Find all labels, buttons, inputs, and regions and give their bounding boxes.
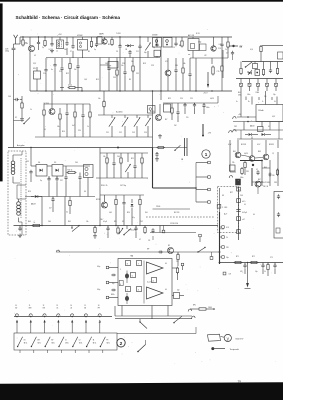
svg-text:R18: R18 — [143, 63, 146, 65]
svg-text:2a: 2a — [236, 101, 238, 103]
pad P3 — [208, 188, 211, 191]
wire driver v3 — [269, 160, 271, 186]
svg-text:0,65V: 0,65V — [244, 153, 248, 155]
resistor R19o — [212, 66, 214, 68]
resistor R9 — [21, 100, 23, 104]
dark box driver — [236, 179, 241, 185]
svg-text:R21: R21 — [131, 158, 134, 160]
ferrite coil core — [20, 158, 22, 218]
wire board bold vertical — [219, 212, 221, 264]
svg-text:C35: C35 — [26, 161, 29, 163]
svg-text:C54: C54 — [144, 132, 147, 134]
svg-text:150mA: 150mA — [258, 109, 264, 112]
chassis symbol — [247, 263, 249, 284]
svg-text:0,7V: 0,7V — [165, 61, 168, 63]
resistor R11 — [59, 113, 61, 115]
wire volume bus — [14, 225, 219, 227]
wire supply bus right — [236, 78, 283, 80]
ground left — [21, 117, 23, 119]
coil box T2 — [98, 37, 103, 45]
capacitor C5 — [96, 42, 98, 44]
connector pad row — [240, 83, 243, 86]
svg-text:C21: C21 — [43, 73, 46, 75]
svg-text:R8: R8 — [179, 45, 181, 47]
svg-text:40: 40 — [165, 289, 167, 291]
pin box 5 — [131, 273, 136, 278]
box right edge a — [278, 52, 284, 59]
svg-text:R15: R15 — [96, 79, 99, 81]
svg-text:D8: D8 — [222, 195, 224, 197]
svg-text:3p: 3p — [40, 180, 42, 182]
wire osc drop 1 — [195, 58, 197, 91]
coil L50 — [255, 70, 260, 76]
hook preamp left — [56, 250, 59, 252]
pad module a — [237, 187, 241, 191]
svg-text:C30: C30 — [175, 65, 178, 67]
wire IF to AF vertical — [152, 91, 154, 148]
svg-text:1k: 1k — [264, 271, 266, 273]
svg-text:0.47 R68: 0.47 R68 — [263, 182, 270, 184]
wire drop varicap right — [64, 197, 66, 226]
capacitor C37 — [56, 177, 58, 179]
svg-text:C/8: C/8 — [229, 274, 232, 276]
switch contact hook 13 — [57, 314, 60, 316]
wire demod drop — [99, 58, 101, 92]
svg-text:4.7k: 4.7k — [226, 227, 229, 229]
svg-text:7: 7 — [138, 263, 139, 265]
switch S6 contact — [72, 346, 73, 347]
capacitor C6 — [119, 37, 121, 45]
svg-text:4/706M: 4/706M — [77, 35, 83, 37]
wire drop x120 — [119, 58, 121, 92]
svg-text:C20: C20 — [78, 130, 81, 132]
svg-text:C60: C60 — [48, 221, 51, 223]
wire right top rail — [262, 44, 283, 46]
wire IF row rail — [163, 102, 218, 104]
wire power rail b — [233, 121, 283, 123]
switch S9 — [174, 316, 182, 322]
svg-text:1k: 1k — [225, 49, 227, 51]
svg-text:10k: 10k — [103, 156, 106, 158]
pin box 7 — [137, 261, 142, 266]
wire driver left vertical — [229, 140, 231, 172]
trimmer capacitor C9 — [145, 43, 150, 51]
capacitor C24b — [177, 110, 179, 112]
diode D1 — [125, 45, 127, 47]
amplifier box — [118, 259, 172, 306]
capacitor C86 — [257, 170, 259, 172]
electrolytic C57 — [125, 274, 129, 279]
wire stereo row — [153, 208, 191, 210]
resistor R15b — [116, 69, 118, 71]
coil L6 — [164, 104, 171, 112]
svg-text:C1: C1 — [20, 41, 22, 43]
hook driver — [229, 176, 232, 178]
wire right rail 2 — [242, 61, 283, 63]
potentiometer P-vol — [117, 227, 119, 229]
svg-text:C/8p: C/8p — [198, 42, 201, 44]
capacitor C51 — [270, 68, 272, 70]
svg-text:Schaltbild · Schema · Circuit: Schaltbild · Schema · Circuit diagram · … — [16, 15, 121, 20]
wire driver bottom link — [252, 181, 262, 183]
svg-text:C/7: C/7 — [226, 53, 229, 55]
svg-text:75: 75 — [238, 380, 242, 384]
svg-text:K6: K6 — [84, 191, 86, 193]
keyboard unit box — [14, 333, 117, 350]
resistor R5 — [181, 40, 183, 42]
hook power a — [233, 117, 236, 119]
svg-text:1: 1 — [120, 269, 121, 271]
svg-text:C37: C37 — [60, 180, 63, 182]
wire detector row — [46, 57, 160, 59]
wire coil taps — [13, 154, 22, 156]
wire AF link down — [219, 188, 221, 212]
svg-text:1k: 1k — [30, 109, 32, 111]
svg-text:NF/b: NF/b — [111, 294, 115, 296]
wire bottom link drop — [195, 327, 197, 334]
pad P6 — [222, 236, 225, 239]
svg-text:100n: 100n — [240, 177, 244, 179]
svg-text:NFL: NFL — [193, 305, 196, 307]
svg-text:D4: D4 — [38, 162, 40, 164]
ferrite coil L7 — [12, 155, 14, 161]
resistor R34 — [234, 262, 236, 264]
svg-text:220: 220 — [226, 247, 229, 249]
switch contact hook 15 — [84, 314, 87, 316]
svg-text:R/4: R/4 — [238, 92, 241, 94]
svg-text:40: 40 — [165, 263, 167, 265]
svg-text:16: 16 — [98, 305, 100, 307]
transistor T3 — [51, 91, 53, 109]
svg-text:b 0.5: b 0.5 — [242, 201, 246, 203]
box AM demod — [108, 62, 118, 69]
svg-text:C/5: C/5 — [148, 240, 150, 242]
oscillator coil L3 — [188, 39, 199, 51]
resistor R52 — [263, 68, 265, 70]
wire AGC base rail — [44, 103, 90, 105]
svg-text:D5: D5 — [54, 162, 56, 164]
resistor R29 — [244, 161, 246, 163]
diode D50 — [247, 71, 249, 73]
capacitor C52 — [278, 194, 280, 196]
junction driver — [252, 164, 254, 166]
svg-text:R/7: R/7 — [165, 119, 168, 121]
capacitor C53 — [19, 226, 21, 229]
wire switch bank top rail — [14, 316, 112, 318]
pad P7 — [222, 246, 225, 249]
svg-text:12: 12 — [43, 305, 45, 307]
svg-text:Ant.gabe: Ant.gabe — [17, 144, 25, 147]
svg-text:1: 1 — [205, 152, 208, 157]
pad amp in 1 — [106, 266, 109, 269]
capacitor C3 — [66, 41, 68, 43]
resistor R13 — [89, 111, 91, 113]
legend voltage symbol — [208, 334, 221, 341]
svg-text:1N60: 1N60 — [256, 92, 260, 94]
wire center left vertical — [99, 148, 101, 226]
resistor R5b — [182, 67, 184, 69]
capacitor C50 — [253, 64, 258, 69]
svg-text:2d: 2d — [274, 101, 276, 103]
wire T10 down — [257, 187, 259, 194]
svg-text:C14: C14 — [172, 47, 175, 49]
capacitor C7 — [129, 50, 131, 52]
svg-text:470k: 470k — [68, 85, 72, 87]
wire +9V feed arrow — [202, 124, 204, 136]
pad P8 — [222, 256, 225, 259]
coil L2 — [154, 50, 160, 56]
switch S8 — [139, 319, 141, 322]
resistor R16c — [132, 65, 134, 67]
switch diag left — [14, 120, 25, 122]
svg-text:10k: 10k — [86, 221, 89, 223]
svg-text:C35: C35 — [136, 73, 139, 75]
svg-text:R/2 220: R/2 220 — [174, 212, 179, 214]
hook bottom right rail — [192, 316, 195, 318]
pad center low — [162, 230, 165, 233]
svg-text:10: 10 — [15, 305, 17, 307]
svg-text:R27: R27 — [230, 192, 233, 194]
pad P5 — [222, 226, 225, 229]
capacitor C63 — [152, 228, 154, 230]
capacitor C16 — [77, 64, 79, 66]
wire tuning bottom rail — [35, 136, 153, 138]
resistor R51 — [240, 67, 242, 69]
coil output — [276, 228, 280, 233]
svg-text:BC238: BC238 — [96, 199, 101, 201]
pad P4 — [208, 201, 211, 204]
capacitor C60 — [262, 263, 264, 266]
pad lower 2 — [210, 257, 213, 260]
wire power drops — [243, 122, 245, 131]
transistor T2b — [165, 70, 171, 76]
resistor R25b — [171, 107, 173, 109]
svg-text:C51: C51 — [106, 132, 109, 134]
IF transformer F2b — [163, 38, 172, 48]
svg-text:0,65: 0,65 — [109, 212, 112, 214]
wire coil mid taps — [17, 184, 26, 186]
resistor R50 — [260, 45, 262, 47]
power box outline — [256, 105, 283, 122]
capacitor C30m — [156, 152, 158, 154]
legend wire to meter — [221, 336, 225, 339]
resistor R6 — [227, 41, 229, 43]
svg-text:C75: C75 — [270, 257, 273, 259]
switch S1b — [126, 226, 128, 230]
svg-text:S1: S1 — [122, 221, 124, 223]
svg-text:R41: R41 — [68, 221, 71, 223]
capacitor C61 — [274, 263, 276, 266]
wire IF rail end drop — [217, 96, 219, 103]
svg-text:1kΩ: 1kΩ — [145, 212, 148, 214]
svg-text:7.05V: 7.05V — [116, 33, 121, 35]
capacitor C11 — [175, 41, 177, 43]
coil box small — [230, 165, 236, 171]
svg-text:T1: T1 — [25, 43, 27, 45]
junction dot tuning — [117, 147, 119, 149]
svg-text:R5: R5 — [108, 44, 110, 46]
svg-text:BF195: BF195 — [150, 111, 155, 113]
switch S7 plunger — [85, 320, 87, 323]
wire preamp rail — [57, 251, 220, 253]
transistor T9 — [168, 248, 174, 254]
board edge vertical — [238, 187, 240, 241]
svg-text:R72: R72 — [252, 256, 255, 258]
wire driver link a — [230, 171, 236, 173]
resistor R2 — [44, 39, 46, 41]
coil L5 — [148, 106, 156, 114]
pad amp in 2 — [106, 281, 109, 284]
svg-text:C49: C49 — [240, 195, 243, 197]
junction driver 2 — [261, 181, 263, 183]
amp internal divider — [143, 261, 145, 304]
tuning gang trimmer C21 — [122, 117, 128, 126]
wire driver top feeds — [237, 140, 239, 152]
resistor R8 470k — [68, 87, 70, 89]
resistor R62 — [241, 167, 243, 169]
resistor R1 — [22, 37, 24, 40]
wire speaker rail b — [115, 318, 192, 320]
wire center base rail — [100, 194, 144, 196]
svg-text:CP/05·294: CP/05·294 — [170, 223, 178, 225]
svg-text:C11: C11 — [136, 51, 139, 53]
svg-text:2W · M: 2W · M — [263, 186, 269, 188]
oscillator box L4 — [200, 44, 207, 51]
switch S2 plunger — [16, 320, 18, 323]
switch contact hook 16 — [98, 314, 101, 316]
svg-text:100n: 100n — [206, 107, 210, 109]
svg-text:S2: S2 — [15, 117, 17, 119]
pad amp in 3 — [106, 296, 109, 299]
switch S5 plunger — [57, 320, 59, 323]
wire osc drop 2 — [211, 58, 213, 64]
svg-text:8: 8 — [127, 263, 128, 265]
capacitor C41 — [52, 197, 54, 199]
resistor R14 — [103, 91, 105, 101]
wire NFL link — [190, 308, 198, 310]
svg-text:U2: U2 — [79, 340, 81, 342]
pin box 3 — [137, 287, 142, 292]
wire pads down 2 — [258, 97, 260, 100]
wire driver v4 — [277, 152, 279, 186]
switch S3 foot — [33, 350, 35, 353]
svg-text:C47 50µ: C47 50µ — [120, 185, 126, 187]
svg-text:C70: C70 — [176, 261, 179, 263]
switch S2 contact — [17, 346, 18, 347]
wire varicap rail — [31, 165, 36, 167]
amp input caps — [111, 274, 113, 276]
wire pad drops right — [240, 91, 242, 117]
wire power rail c — [233, 129, 283, 131]
resistor R68b — [277, 169, 279, 171]
svg-text:4.7: 4.7 — [139, 239, 141, 241]
resistor R35 — [250, 262, 252, 264]
ground T4 — [159, 134, 161, 136]
capacitor C35 — [30, 170, 32, 172]
svg-text:u 47: u 47 — [242, 219, 245, 221]
svg-text:9V: 9V — [240, 46, 243, 48]
output box — [274, 192, 285, 239]
circled number 1 — [202, 150, 210, 158]
diode D6 AA119 — [31, 196, 34, 198]
svg-text:CP/06: CP/06 — [156, 206, 160, 208]
switch S6 plunger — [71, 320, 73, 323]
transistor T5o — [211, 46, 216, 51]
svg-text:C25: C25 — [190, 98, 193, 100]
capacitor C36 — [48, 177, 50, 179]
capacitor C39 — [79, 175, 81, 177]
svg-text:2p: 2p — [153, 47, 155, 49]
svg-text:5p: 5p — [94, 49, 96, 51]
wire tuning row rail — [98, 114, 153, 116]
capacitor C18 — [66, 111, 68, 113]
resistor R31 — [94, 226, 96, 228]
pad module d — [237, 230, 241, 234]
pad module c — [237, 217, 241, 221]
svg-text:U2: U2 — [70, 308, 72, 310]
trimmer C45 — [125, 164, 130, 172]
hook power b — [233, 130, 236, 132]
wire drop x161 — [160, 47, 162, 91]
svg-text:2n2: 2n2 — [74, 69, 77, 71]
switch S10 diagonal — [138, 345, 146, 352]
svg-text:30p: 30p — [144, 52, 147, 54]
capacitor C33 — [108, 66, 110, 68]
op-amp U1a — [147, 262, 164, 274]
svg-text:C · R65: C · R65 — [222, 207, 227, 209]
capacitor C49 0.47uF — [236, 209, 240, 211]
wire T7-T8 link — [255, 157, 263, 160]
wire center mid rail — [96, 177, 148, 179]
testpoint +9V right — [229, 45, 238, 47]
pad module left — [217, 205, 221, 209]
svg-text:L1: L1 — [56, 51, 58, 53]
wire bottom angle — [145, 340, 147, 345]
resistor R17 1k — [67, 172, 69, 174]
svg-text:U1: U1 — [65, 340, 67, 342]
svg-text:10n: 10n — [98, 98, 101, 100]
switch S7 foot — [88, 350, 90, 353]
wire lower rail segment — [150, 232, 196, 234]
tuning gang trimmer C23 — [145, 118, 150, 126]
capacitor C15 — [61, 66, 63, 68]
svg-text:C88: C88 — [274, 182, 277, 184]
transistor T2 — [102, 39, 107, 44]
capacitor C56 — [158, 251, 160, 253]
wire varicap bottom rail — [25, 196, 95, 198]
wire rail link — [159, 226, 161, 233]
switch diag right top — [246, 62, 253, 67]
wire AGC bus rail right — [153, 147, 188, 149]
switch S6 foot — [74, 350, 76, 353]
resistor R21 — [120, 157, 122, 159]
IF transformer F2a — [153, 38, 162, 48]
resistor R39 — [144, 226, 146, 228]
capacitor C26 100n — [203, 103, 205, 105]
capacitor C59 — [244, 263, 246, 266]
capacitor C1 — [38, 37, 40, 42]
op-amp U1b — [147, 287, 164, 299]
capacitor C52b — [278, 212, 280, 214]
capacitor C17 — [14, 99, 16, 101]
resistor R32 — [177, 252, 179, 254]
svg-text:C/4.7: C/4.7 — [100, 219, 104, 221]
antenna ANT — [14, 35, 16, 39]
svg-text:1,4V: 1,4V — [84, 79, 87, 81]
svg-text:0,65V: 0,65V — [210, 98, 214, 100]
legend testpoint — [211, 347, 214, 350]
svg-text:C82: C82 — [234, 126, 237, 128]
